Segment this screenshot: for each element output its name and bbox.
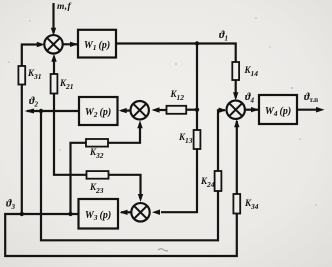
svg-text:m,f: m,f <box>57 2 71 12</box>
svg-text:W3 (p): W3 (p) <box>85 210 111 222</box>
svg-text:W4 (p): W4 (p) <box>265 106 291 118</box>
svg-text:W2 (p): W2 (p) <box>85 107 111 119</box>
svg-text:W1 (p): W1 (p) <box>84 40 110 52</box>
